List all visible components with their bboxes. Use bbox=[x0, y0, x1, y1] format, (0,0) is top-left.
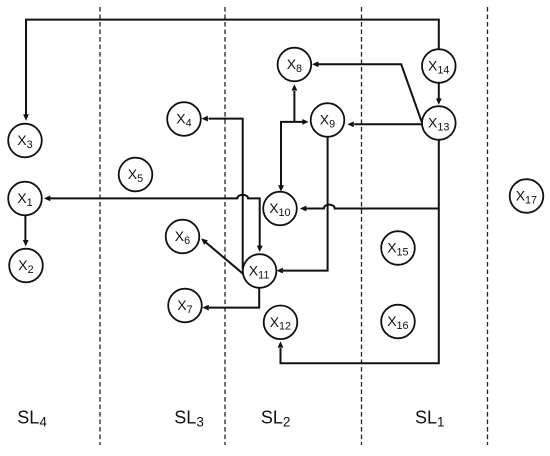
wire x13 trunk down, to x12 bbox=[278, 140, 439, 363]
node X13 bbox=[422, 106, 456, 140]
node X17 bbox=[510, 179, 544, 213]
node X3 bbox=[8, 124, 42, 158]
wire x11 to x6 diagonal bbox=[201, 238, 244, 274]
wire into x1 and into x11 with hop bbox=[44, 195, 263, 252]
node X2 bbox=[9, 249, 43, 283]
lane divider SL1/right bbox=[487, 7, 489, 445]
node X9 bbox=[311, 103, 345, 137]
wire branch up into x8 bbox=[292, 84, 298, 122]
lane divider SL2/SL1 bbox=[361, 7, 363, 445]
wire x14 to x3 bbox=[23, 20, 439, 121]
wire branch to x10 with hop over x9 vertical bbox=[300, 205, 439, 212]
lane divider SL4/SL3 bbox=[99, 7, 101, 445]
wire junction arrows into x10 and x9 bbox=[278, 119, 309, 192]
lane divider SL3/SL2 bbox=[224, 7, 226, 445]
node X5 bbox=[119, 158, 153, 192]
node X11 bbox=[243, 254, 277, 288]
wire x14 to x13 bbox=[436, 83, 442, 105]
wire x13 to x8 bbox=[312, 61, 422, 122]
node X8 bbox=[278, 48, 312, 82]
node X7 bbox=[168, 289, 202, 323]
node X15 bbox=[381, 231, 415, 265]
node X4 bbox=[167, 102, 201, 136]
node X6 bbox=[166, 220, 200, 254]
wire x11 to x7 bbox=[202, 288, 259, 311]
wire x13 to x9 bbox=[347, 121, 422, 127]
node X14 bbox=[422, 49, 456, 83]
node X1 bbox=[8, 182, 42, 216]
wire x11 to x4 bbox=[202, 116, 243, 270]
node X16 bbox=[381, 305, 415, 339]
node X12 bbox=[264, 306, 298, 340]
wire x1 to x2 bbox=[23, 215, 29, 246]
node X10 bbox=[263, 192, 297, 226]
wire x9 to x11 bbox=[277, 137, 328, 274]
